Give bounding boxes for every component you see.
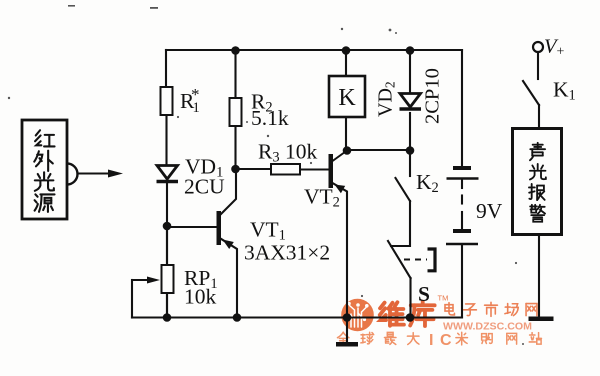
- node VT1 base tap: [163, 222, 172, 231]
- watermark 维库: [380, 302, 435, 326]
- resistor R2 body: [230, 98, 242, 126]
- source lens bump: [67, 164, 77, 185]
- node rail VT2 emitter: [343, 313, 352, 322]
- node top K: [342, 46, 351, 55]
- svg-text:5.1k: 5.1k: [251, 106, 289, 130]
- svg-text:2CP10: 2CP10: [422, 68, 444, 124]
- watermark 全球最大IC采购网站: [337, 332, 419, 344]
- wire VT2 emitter down to ground: [333, 183, 348, 342]
- switch K1 blade: [523, 81, 539, 105]
- wire battery bottom: [461, 245, 463, 318]
- node rail S: [406, 313, 415, 322]
- wire K box bottom to node C: [345, 117, 347, 150]
- relay K box: [329, 76, 365, 117]
- wire battery column top: [461, 50, 463, 166]
- resistor R1 body: [161, 87, 173, 115]
- wire RP1 bottom lead: [166, 293, 168, 318]
- ground VT2 emitter: [336, 342, 358, 347]
- battery cell 1: [453, 166, 471, 170]
- wire VT1 base: [167, 226, 216, 228]
- wire K1 to alarm box: [538, 105, 540, 128]
- source arrow head: [108, 170, 123, 178]
- transistor VT2 collector: [333, 151, 348, 162]
- wire R2 column upper: [234, 50, 236, 98]
- transistor VT1 base bar: [217, 211, 222, 245]
- diode VD2: [400, 94, 422, 110]
- wire V+ to K1: [537, 52, 539, 79]
- wire R1 to VD1: [165, 115, 167, 165]
- terminal V+: [533, 42, 543, 52]
- transistor VT2 base bar: [329, 154, 334, 188]
- wire alarm box bottom: [538, 235, 540, 318]
- scan specks: [8, 5, 524, 345]
- wire VT1 emitter down: [221, 239, 238, 319]
- svg-text:TM: TM: [438, 294, 449, 303]
- node rail left column: [163, 313, 172, 322]
- label 红外光源: [34, 130, 54, 212]
- switch K2 blade: [396, 178, 411, 201]
- watermark logo circle: [341, 299, 374, 332]
- svg-text:I: I: [429, 332, 433, 349]
- battery cell 2: [453, 229, 471, 233]
- svg-text:9V: 9V: [476, 199, 503, 223]
- switch S actuator dashes: [404, 259, 427, 261]
- photodiode VD1: [157, 166, 179, 182]
- wire VD2 to node D: [409, 113, 411, 150]
- wire K column top: [345, 50, 347, 76]
- transistor VT2 emitter arrow: [335, 185, 346, 194]
- node top VD2: [406, 46, 415, 55]
- wire RP1 top lead: [166, 226, 168, 265]
- svg-text:2CU: 2CU: [184, 175, 225, 199]
- potentiometer RP1 body: [162, 265, 174, 293]
- node VT2 collector: [343, 146, 352, 155]
- wire node B down to VT1 collector: [220, 169, 236, 215]
- svg-text:S: S: [418, 282, 430, 306]
- source box 红外光源: [22, 120, 67, 219]
- ground alarm branch: [529, 317, 554, 322]
- wire top rail: [166, 49, 462, 51]
- wire VT2 collector node to VD2 node: [347, 149, 410, 151]
- node VD2 bottom: [406, 146, 415, 155]
- svg-text:C: C: [440, 332, 452, 349]
- wire S to bottom rail: [409, 278, 411, 318]
- wire left column upper: [165, 50, 167, 87]
- alarm box 声光报警: [513, 129, 562, 235]
- wire K2 to S: [391, 201, 410, 246]
- wire battery cells stub: [461, 180, 463, 188]
- node rail VT1 emitter: [233, 313, 242, 322]
- potentiometer RP1 wiper arrow: [132, 279, 150, 281]
- svg-text:10k: 10k: [184, 285, 217, 309]
- transistor VT1 emitter arrow: [223, 240, 234, 250]
- wire node D to K2 contact: [409, 150, 411, 176]
- node top R2: [231, 46, 240, 55]
- wire battery dashed middle: [461, 196, 463, 204]
- svg-text:3AX31×2: 3AX31×2: [244, 241, 330, 265]
- wire bottom rail: [132, 316, 462, 318]
- switch S blade: [388, 241, 411, 278]
- svg-text:*: *: [191, 85, 200, 104]
- wire R3 right lead to VT2 base: [300, 168, 328, 170]
- wire source arrow line: [78, 172, 112, 174]
- wire R3 left lead: [236, 168, 272, 170]
- svg-text:R3 10k: R3 10k: [258, 140, 317, 166]
- wire VD2 column top: [409, 50, 411, 93]
- svg-text:K: K: [338, 85, 356, 111]
- svg-text:WWW.DZSC.COM: WWW.DZSC.COM: [443, 321, 532, 333]
- label 声光报警: [529, 143, 546, 222]
- switch S actuator bracket: [428, 249, 436, 271]
- node R2-R3: [231, 165, 240, 174]
- watermark 电子市场网: [445, 302, 537, 316]
- wire VD1 to bottom rail: [166, 183, 168, 318]
- resistor R3 body: [271, 164, 300, 175]
- wire R2 to R3 node: [234, 126, 236, 169]
- wire RP1 wiper down: [131, 280, 133, 318]
